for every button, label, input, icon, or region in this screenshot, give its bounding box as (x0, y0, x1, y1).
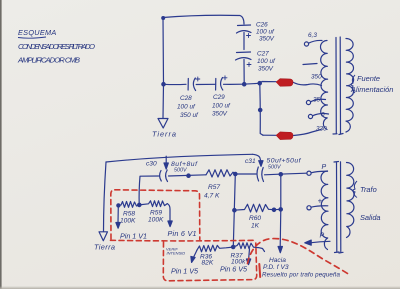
wire to connector 1 (260, 82, 277, 84)
svg-text:P: P (322, 164, 327, 171)
svg-text:4,7 K: 4,7 K (204, 193, 220, 200)
svg-text:R57: R57 (208, 184, 220, 191)
wire to connector 2 (263, 134, 276, 136)
wire C26 to C27 (243, 33, 245, 50)
svg-text:1K: 1K (251, 223, 260, 230)
wire connector2 to 330 terminal (294, 130, 322, 136)
svg-text:C26: C26 (256, 22, 268, 29)
capacitor C31 (257, 167, 259, 181)
svg-text:0: 0 (321, 112, 325, 119)
svg-text:Salida: Salida (360, 213, 381, 222)
svg-text:350 uf: 350 uf (180, 112, 199, 119)
capacitor C30 (160, 171, 162, 182)
T2 primary winding (left) (321, 171, 328, 250)
terminal 6,3 circle (304, 42, 308, 46)
svg-text:Hacia: Hacia (269, 257, 286, 264)
wire vertical left of R60 (233, 174, 235, 246)
node R57/C31/R60 (234, 172, 237, 175)
connector 2 (red) to 330 (276, 132, 293, 140)
capacitor C29 (215, 79, 217, 91)
wire rail C30 to R57 (169, 175, 207, 176)
svg-text:82K: 82K (202, 260, 214, 267)
svg-text:INTENSID: INTENSID (167, 251, 186, 256)
junction node bus-right corner (258, 82, 261, 85)
wire vertical between connectors (260, 84, 263, 136)
svg-text:ESQUEMA: ESQUEMA (18, 28, 57, 37)
output transformer T2 (305, 162, 354, 254)
svg-text:Tierra: Tierra (152, 130, 176, 139)
capacitor C28 (187, 79, 189, 91)
wire R59 to Pin 6 V1 arrow (167, 204, 170, 222)
T2 labels (318, 164, 381, 240)
node R60 right (272, 208, 275, 211)
svg-text:P.D. f V3: P.D. f V3 (263, 264, 289, 271)
svg-text:Fuente: Fuente (357, 74, 380, 83)
svg-text:P: P (320, 233, 325, 240)
terminal 6,3 lower stub (303, 64, 317, 65)
node R36/R37/vertical (232, 245, 235, 248)
svg-text:R59: R59 (150, 210, 162, 217)
wire R57 to C31 (233, 172, 256, 174)
capacitor C26 (238, 24, 251, 27)
svg-text:Pin 6 V1: Pin 6 V1 (168, 229, 197, 238)
terminal P bottom arrow (310, 241, 330, 243)
svg-text:CONDENSADORES FILTRADO: CONDENSADORES FILTRADO (18, 42, 95, 51)
resistor R58 (118, 202, 139, 208)
wire top rail of PSU filter loop (163, 15, 244, 24)
svg-text:Alimentación: Alimentación (350, 85, 393, 94)
svg-text:Trafo: Trafo (360, 185, 377, 194)
wire C30 left lead down to R58/R59 junction (139, 176, 158, 205)
svg-text:R58: R58 (123, 211, 135, 218)
connector 1 (red) to 350 (276, 79, 293, 87)
svg-text:+: + (318, 197, 323, 206)
red dashed shared edge (box1 bottom / box2 top) (111, 239, 256, 242)
T2 core (334, 162, 343, 254)
wire B+ top rail (bottom circuit) (106, 154, 253, 162)
junction node C27-bus (243, 83, 246, 86)
node R58 left (117, 204, 120, 207)
svg-text:AMPLIFICADOR CMB: AMPLIFICADOR CMB (17, 56, 80, 65)
node on rail left of R57 (187, 174, 190, 177)
svg-text:100K: 100K (120, 218, 136, 225)
T1 secondary winding (left) (320, 41, 327, 130)
svg-text:Pin 6 V5: Pin 6 V5 (220, 265, 248, 274)
wire vertical right of R60 down to V3 arrow (279, 175, 282, 248)
wire R37 to Pin 6 V5 arrow (248, 249, 251, 260)
red dashed box V1 grid resistors (111, 190, 200, 240)
wire C27 down to bus (243, 60, 245, 85)
wire bus segment right (224, 83, 260, 84)
title text block (17, 28, 95, 65)
terminal + circle (307, 206, 311, 210)
wire bus segment left (164, 83, 187, 85)
svg-text:6,3: 6,3 (308, 32, 317, 39)
junction node mid vertical (259, 108, 262, 111)
resistor R59 (139, 201, 167, 207)
wire corner + feed arrow into C31 (253, 154, 261, 161)
svg-text:R60: R60 (249, 215, 261, 222)
svg-text:330: 330 (316, 126, 327, 133)
junction node bus-left (162, 83, 165, 86)
svg-text:c31: c31 (245, 158, 256, 165)
svg-text:350: 350 (311, 74, 322, 81)
junction node top-left corner (162, 17, 165, 20)
svg-text:Tierra: Tierra (94, 243, 115, 252)
svg-text:500V: 500V (174, 168, 188, 174)
terminal 35 circle (306, 100, 310, 104)
resistor R37 (233, 243, 264, 252)
red dashed box V5 grid resistors (163, 242, 256, 281)
wire bus segment mid (196, 83, 215, 85)
node R60 left (233, 209, 236, 212)
label Fuente Alimentacion with brace (350, 74, 393, 94)
bottom circuit labels (94, 158, 341, 279)
wire left vertical to ground (162, 18, 165, 119)
svg-text:100 uf: 100 uf (257, 58, 276, 65)
ground Tierra (bottom circuit) (99, 232, 108, 241)
svg-text:35: 35 (313, 97, 321, 104)
resistor R57 (206, 170, 233, 177)
svg-text:C29: C29 (213, 94, 225, 101)
svg-text:Pin 1 V5: Pin 1 V5 (171, 267, 199, 276)
T2 secondary winding (right) (347, 162, 354, 237)
node R58/R59 junction (138, 203, 141, 206)
svg-text:Resuelto por trafo pequeña: Resuelto por trafo pequeña (262, 272, 341, 279)
svg-text:500V: 500V (268, 165, 282, 171)
svg-text:100K: 100K (148, 217, 164, 224)
wire connector1 to 350 terminal (293, 82, 322, 86)
power transformer T1 (303, 37, 354, 135)
terminal P top circle (307, 171, 311, 175)
T1 core (333, 37, 343, 135)
red dashed arc over Hacia note (248, 239, 351, 276)
svg-text:Pin 1 V1: Pin 1 V1 (120, 232, 147, 241)
red solid tick right of box (258, 264, 261, 277)
svg-text:C27: C27 (257, 51, 269, 58)
resistor R60 (234, 204, 280, 212)
svg-text:100 uf: 100 uf (177, 104, 196, 111)
capacitor C27 (237, 51, 251, 54)
svg-text:350V: 350V (259, 36, 275, 43)
resistor R36 (197, 245, 233, 252)
capacitor value labels top circuit (152, 22, 276, 139)
T1 terminal labels (308, 32, 327, 133)
node C31/R60/V3 (279, 173, 282, 176)
wire R36 to Pin 1 V5 arrow (193, 251, 197, 258)
ground Tierra (top circuit) (158, 119, 168, 129)
svg-text:50uf+50uf: 50uf+50uf (267, 158, 302, 165)
svg-text:100 uf: 100 uf (256, 29, 275, 36)
feed arrow into C30 node (165, 156, 167, 163)
wire left vertical to ground (bottom) (104, 162, 107, 232)
svg-text:100 uf: 100 uf (212, 103, 231, 110)
wire C31 to output transformer P (265, 173, 307, 175)
terminal 0 circle (308, 114, 312, 118)
wire R58 to Pin 1 V1 arrow (117, 207, 119, 224)
svg-text:350V: 350V (212, 111, 228, 118)
svg-text:350V: 350V (258, 66, 274, 73)
svg-text:c30: c30 (146, 161, 157, 168)
T1 primary winding (right) (346, 38, 354, 132)
svg-text:C28: C28 (180, 95, 192, 102)
